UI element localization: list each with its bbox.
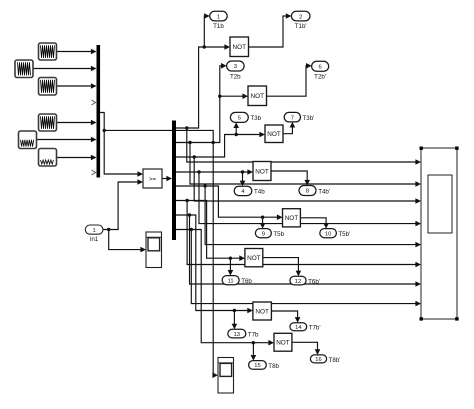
wire NOT6 output to outport T6b-bar	[263, 258, 299, 272]
wire NOT2 output to outport T2b-bar	[267, 66, 308, 96]
wire Mux1 output to relational operator (top input)	[100, 113, 137, 175]
wire branch up to outport T1b	[204, 16, 205, 47]
wire branch to NOT2	[220, 95, 243, 97]
svg-text:T3b: T3b	[250, 115, 261, 122]
svg-text:14: 14	[295, 325, 302, 331]
signal generator block SG3	[39, 78, 57, 96]
mux Mux1 unconnected port mark (port 8)	[92, 170, 96, 175]
display scope block (8-input, selected)	[420, 147, 459, 321]
svg-text:NOT: NOT	[251, 93, 265, 100]
svg-text:T6b': T6b'	[308, 278, 320, 285]
arrowhead SG4 to Mux1	[91, 120, 97, 126]
arrowhead down into oval T6b	[228, 270, 234, 276]
logic block NOT6	[245, 249, 263, 267]
arrowhead display input 8	[415, 301, 421, 307]
arrowhead down into oval T4b-bar	[304, 180, 310, 186]
arrowhead SG3 to Mux1	[91, 83, 97, 89]
wire branch down to outport T5b	[262, 217, 264, 224]
wire Demux out2 riser to T2b (net row2)	[176, 66, 222, 144]
svg-text:T2b': T2b'	[314, 73, 326, 80]
wire relational op output to Demux	[162, 178, 167, 180]
signal generator block SG1	[39, 43, 57, 60]
wire SG2 to Mux1	[33, 68, 96, 70]
arrowhead display input 2	[415, 181, 421, 187]
svg-text:T8b: T8b	[268, 363, 279, 370]
svg-text:9: 9	[262, 231, 265, 237]
svg-text:T5b': T5b'	[338, 231, 350, 238]
svg-text:NOT: NOT	[276, 340, 290, 347]
outport oval 10 (T5b-bar)	[320, 229, 337, 238]
arrowhead into NOT3	[259, 132, 265, 138]
arrowhead SG1 to Mux1	[91, 49, 97, 55]
logic block NOT4	[253, 162, 271, 181]
svg-text:5: 5	[238, 116, 241, 122]
wire NOT8 output to outport T8b-bar	[292, 342, 318, 350]
arrowhead display input 3	[415, 198, 421, 204]
logic block NOT2	[248, 86, 267, 106]
wire Demux out8 branch to display line 8	[191, 230, 415, 304]
wire branch down to outport T7b	[233, 311, 235, 325]
arrowhead into oval T2b-bar	[306, 63, 312, 69]
wire in1 branch to Scope1	[109, 230, 141, 250]
mux Mux1 (input combiner bar)	[97, 45, 101, 178]
wire NOT1 output to outport T1b-bar	[249, 16, 288, 47]
wire branch down to outport T8b	[252, 343, 254, 356]
svg-text:7: 7	[291, 115, 294, 121]
wire branch down to outport T4b	[242, 172, 244, 182]
wire in1 to relational operator (bottom input)	[103, 182, 138, 231]
arrowhead display input 1	[415, 159, 421, 165]
arrowhead into relational op top input	[137, 171, 143, 177]
wire SG3 to Mux1	[57, 85, 96, 87]
arrowhead into NOT2	[242, 93, 248, 99]
arrowhead down into oval T6b-bar	[296, 271, 302, 277]
outport oval 5 (T3b)	[230, 112, 248, 122]
svg-text:NOT: NOT	[267, 131, 281, 138]
svg-text:in1: in1	[90, 236, 99, 243]
arrowhead down into oval T4b	[240, 181, 246, 187]
arrowhead down into oval T7b	[232, 324, 238, 330]
wire SG5 to Mux1	[37, 139, 96, 141]
wire NOT5 output to outport T5b-bar	[300, 218, 326, 224]
svg-text:NOT: NOT	[285, 215, 299, 222]
wire Demux out3 to NOT3 (net row3)	[176, 133, 260, 159]
svg-text:16: 16	[315, 357, 321, 363]
wire Demux out6 branch to display line 6	[187, 201, 415, 265]
svg-text:T1b: T1b	[213, 23, 224, 30]
arrowhead down into oval T7b-bar	[295, 317, 301, 323]
arrowhead into NOT4	[247, 169, 253, 175]
wire NOT4 output to outport T4b-bar	[271, 171, 307, 181]
logic block NOT8	[274, 333, 292, 351]
wire Demux out7 to NOT7 (net row7)	[176, 213, 248, 312]
outport oval 4 (T4b)	[234, 186, 252, 195]
arrowhead into NOT8	[268, 340, 274, 346]
logic block NOT3	[265, 125, 283, 143]
svg-text:2: 2	[299, 14, 302, 20]
svg-text:NOT: NOT	[247, 255, 261, 262]
svg-text:T4b: T4b	[254, 189, 265, 196]
svg-text:1: 1	[217, 14, 220, 20]
svg-text:T7b': T7b'	[309, 325, 321, 332]
wire SG6 to Mux1	[57, 157, 96, 159]
arrowhead up into oval T3b	[233, 122, 239, 128]
svg-text:NOT: NOT	[255, 168, 269, 175]
svg-text:T6b: T6b	[241, 278, 252, 285]
outport oval 3 (T2b)	[227, 61, 245, 71]
svg-text:NOT: NOT	[233, 44, 247, 51]
arrowhead into NOT1	[224, 44, 230, 50]
arrowhead into oval T1b	[204, 13, 210, 19]
arrowhead display input 5	[415, 242, 421, 248]
arrowhead into NOT5	[277, 214, 283, 220]
inport oval in1	[85, 225, 103, 234]
arrowhead into Scope1	[140, 247, 146, 253]
wire Demux out5 to NOT5 (net row5)	[176, 184, 277, 219]
svg-text:T1b': T1b'	[295, 23, 307, 30]
svg-text:T8b': T8b'	[329, 357, 341, 364]
wire Demux out1 branch to display line 1	[187, 128, 416, 162]
svg-text:T3b': T3b'	[303, 115, 315, 122]
wire SG1 to Mux1	[57, 51, 96, 53]
signal generator block SG2	[15, 60, 33, 78]
signal generator block SG6	[39, 149, 57, 167]
svg-text:T5b: T5b	[273, 231, 284, 238]
svg-text:13: 13	[234, 332, 240, 338]
arrowhead into NOT6	[239, 255, 245, 261]
logic block NOT1	[230, 37, 249, 57]
demux bar (Demux, 8 outputs)	[172, 121, 176, 241]
svg-text:3: 3	[234, 64, 237, 70]
arrowhead up into oval T3b-bar	[290, 122, 296, 128]
svg-text:NOT: NOT	[255, 308, 269, 315]
arrowhead display input 4	[415, 221, 421, 227]
arrowhead into oval T2b	[221, 63, 227, 69]
wire SG4 to Mux1	[57, 122, 96, 124]
outport oval 1 (T1b)	[210, 11, 228, 21]
outport oval 9 (T5b)	[255, 229, 271, 238]
wire NOT7 output to outport T7b-bar	[271, 311, 297, 318]
arrowhead into oval T1b-bar	[286, 13, 292, 19]
outport oval 7 (T3b-bar)	[284, 112, 300, 122]
outport oval 11 (T6b)	[222, 276, 239, 285]
svg-text:1: 1	[92, 228, 95, 234]
svg-text:T4b': T4b'	[318, 189, 330, 196]
logic block NOT5	[283, 209, 301, 227]
outport oval 6 (T2b-bar)	[312, 61, 329, 71]
signal generator block SG5	[19, 131, 37, 149]
arrowhead into Scope2	[212, 372, 218, 378]
svg-text:6: 6	[319, 65, 322, 71]
svg-text:T2b: T2b	[230, 73, 241, 80]
wire Demux out4 to NOT4 (net row4)	[176, 170, 248, 173]
arrowhead display input 6	[415, 262, 421, 268]
scope block Scope1	[146, 232, 162, 268]
outport oval 14 (T7b-bar)	[290, 323, 307, 331]
svg-text:T7b: T7b	[248, 332, 259, 339]
svg-text:11: 11	[228, 278, 234, 284]
wire branch up to outport T3b	[235, 127, 237, 135]
outport oval 15 (T8b)	[249, 361, 267, 370]
wire NOT3 output to outport T3b-bar	[283, 127, 292, 134]
arrowhead into relational op bottom input	[137, 179, 143, 185]
outport oval 13 (T7b)	[228, 329, 246, 338]
signal generator block SG4	[39, 114, 57, 131]
arrowhead down into oval T8b	[251, 355, 257, 361]
scope block Scope2	[218, 358, 234, 394]
wire Demux out8 to NOT8 (net row8)	[176, 228, 269, 345]
svg-text:>=: >=	[149, 177, 157, 183]
wire Demux out7 branch to display line 7	[190, 215, 416, 284]
arrowhead into Demux bar	[166, 176, 172, 182]
wire Demux out4 branch to display line 4	[199, 172, 416, 224]
arrowhead into NOT7	[247, 308, 253, 314]
wire Demux out2 branch to display line 2	[190, 143, 416, 185]
wire branch down to outport T6b	[229, 258, 231, 271]
arrowhead down into oval T5b-bar	[323, 223, 329, 229]
wire Demux out3 branch to display line 3	[194, 157, 415, 201]
wire Mux1 branch to Scope2 (long vertical)	[104, 130, 215, 375]
outport oval 16 (T8b-bar)	[310, 355, 326, 363]
mux Mux1 unconnected port mark (port 4)	[92, 100, 96, 105]
arrowhead SG2 to Mux1	[91, 66, 97, 72]
svg-text:15: 15	[254, 363, 260, 369]
relational operator block >=	[143, 169, 162, 188]
outport oval 8 (T4b-bar)	[299, 186, 316, 196]
svg-text:12: 12	[295, 279, 301, 285]
arrowhead down into oval T8b-bar	[315, 349, 321, 355]
svg-text:10: 10	[325, 231, 331, 237]
svg-text:8: 8	[306, 189, 309, 195]
arrowhead SG5 to Mux1	[91, 137, 97, 143]
wire Demux out1 to NOT1 and T1b (net row1)	[176, 45, 225, 129]
arrowhead display input 7	[415, 281, 421, 287]
wire Demux out6 to NOT6 (net row6)	[176, 199, 240, 260]
arrowhead down into oval T5b	[260, 223, 266, 229]
wire Demux out5 branch to display line 5	[205, 186, 415, 245]
logic block NOT7	[253, 302, 272, 320]
arrowhead SG6 to Mux1	[91, 155, 97, 161]
outport oval 2 (T1b-bar)	[291, 11, 310, 21]
outport oval 12 (T6b-bar)	[290, 276, 306, 285]
